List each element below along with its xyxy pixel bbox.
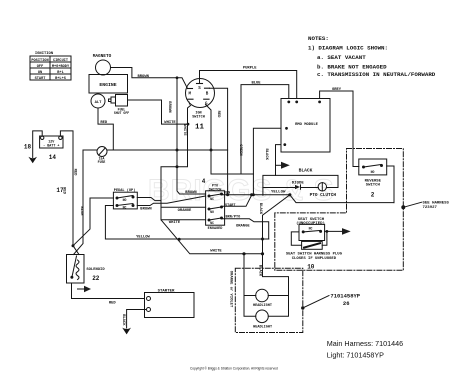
svg-text:BLUE: BLUE	[79, 206, 83, 216]
svg-text:M+G+BODY: M+G+BODY	[52, 65, 70, 69]
svg-text:BRIGGS & S: BRIGGS & S	[148, 174, 335, 207]
wire: PURPLE, ign switch S to RMO module	[200, 67, 297, 99]
svg-text:B+L: B+L	[57, 71, 63, 75]
wire: WHITE pedal NO-right to headlight feed	[137, 198, 262, 254]
wire: BROWN vertical drop to PTO switch NC1 left	[167, 77, 206, 195]
svg-text:WHITE: WHITE	[182, 124, 186, 136]
svg-text:NO: NO	[210, 210, 214, 214]
svg-text:ALT: ALT	[95, 101, 103, 105]
svg-text:S: S	[198, 87, 201, 91]
svg-text:1) DIAGRAM LOGIC SHOWN:: 1) DIAGRAM LOGIC SHOWN:	[308, 45, 388, 52]
junction: solenoid feed node	[72, 245, 74, 247]
wire: seat switch right output with connector arrow	[325, 228, 351, 235]
svg-text:c. TRANSMISSION IN NEUTRAL/FOR: c. TRANSMISSION IN NEUTRAL/FORWARD	[317, 71, 436, 78]
wire: BLACK pto clutch loop	[263, 168, 338, 196]
svg-text:22: 22	[92, 275, 100, 282]
svg-text:SWITCH: SWITCH	[366, 184, 381, 188]
svg-text:HEADLIGHT: HEADLIGHT	[253, 326, 272, 330]
svg-text:2: 2	[371, 192, 375, 199]
notes text	[308, 35, 436, 78]
harness part numbers	[327, 339, 403, 360]
engine	[89, 75, 128, 94]
svg-text:NC: NC	[123, 205, 127, 209]
svg-text:BLACK: BLACK	[264, 148, 268, 160]
PTO switch 4	[202, 178, 241, 231]
wire: ORANGE or VIOLET headlight left bus	[229, 254, 256, 316]
wire: headlight 1 left lead	[244, 295, 256, 297]
wire: magneto to ign switch terminal M (BROWN)	[111, 68, 188, 89]
junction: black bus on yellow line	[262, 238, 264, 240]
svg-text:HEADLIGHT: HEADLIGHT	[253, 304, 272, 308]
svg-text:11: 11	[195, 123, 205, 131]
wire: from ign switch G down and right to green vertical	[206, 105, 254, 175]
svg-text:SOLENOID: SOLENOID	[86, 268, 105, 272]
svg-text:BLACK: BLACK	[258, 203, 262, 215]
svg-text:NC: NC	[210, 221, 214, 225]
solenoid 22	[67, 255, 106, 284]
svg-text:OFF: OFF	[37, 65, 43, 69]
svg-text:RED: RED	[100, 121, 108, 125]
svg-text:RED: RED	[62, 187, 66, 195]
wire: RED alternator to fuse line	[98, 108, 113, 150]
junction: clutch feed node	[289, 194, 291, 196]
wire: PTO start output	[222, 195, 252, 206]
junction: white crosses yellow	[178, 238, 180, 240]
svg-text:PURPLE: PURPLE	[243, 67, 257, 71]
svg-text:10: 10	[307, 264, 315, 271]
svg-text:CIRCUIT: CIRCUIT	[53, 59, 69, 63]
junction: headlight right bus tap	[261, 253, 263, 255]
wire: BLUE pedal NO-left to solenoid node	[73, 198, 113, 246]
wire: ORANGE PTO NO-left	[161, 207, 206, 213]
svg-text:4: 4	[202, 178, 206, 185]
wire: BLACK starter to ground	[121, 310, 147, 329]
svg-text:Main Harness: 7101446: Main Harness: 7101446	[327, 339, 403, 348]
wire: RED fuse to solenoid	[73, 150, 97, 255]
svg-text:SWITCH: SWITCH	[192, 116, 205, 120]
svg-text:b. BRAKE NOT ENGAGED: b. BRAKE NOT ENGAGED	[317, 64, 387, 71]
wire: RED solenoid to starter	[72, 283, 145, 306]
svg-text:NOTES:: NOTES:	[308, 35, 329, 42]
wire: reverse switch return	[387, 166, 394, 203]
svg-text:GREY: GREY	[332, 88, 342, 92]
svg-text:SHUT OFF: SHUT OFF	[114, 111, 129, 115]
svg-text:PTO CLUTCH: PTO CLUTCH	[310, 193, 337, 198]
svg-text:YELLOW: YELLOW	[136, 236, 150, 240]
headlight 1	[253, 289, 272, 308]
svg-text:Light: 7101458YP: Light: 7101458YP	[327, 351, 384, 360]
wire: YELLOW pedal NC-left bus	[105, 206, 268, 240]
ignition switch logic table	[30, 52, 71, 81]
ign switch 11	[186, 79, 215, 132]
diode C4	[292, 181, 319, 189]
light harness callout 7101458YP 26	[302, 293, 361, 310]
svg-text:NC: NC	[210, 197, 214, 201]
wire: WHITE from ign switch L down to fuse line	[182, 106, 191, 151]
svg-text:BROWN: BROWN	[167, 101, 171, 113]
pedal switch (up)	[113, 188, 137, 209]
ground: starter	[122, 328, 131, 335]
svg-text:B: B	[206, 93, 209, 97]
svg-text:BLACK: BLACK	[299, 168, 313, 174]
wire: headlight 1 right lead	[268, 295, 288, 297]
svg-text:IGNITION: IGNITION	[35, 52, 54, 56]
wire: BLACK headlight right bus	[258, 239, 289, 316]
svg-text:ORANGE or VIOLET: ORANGE or VIOLET	[229, 271, 234, 308]
wire: BLACK node down to yellow bus	[258, 195, 290, 239]
solenoid connector arrow	[78, 286, 92, 292]
svg-text:26: 26	[343, 300, 350, 307]
svg-text:ENGAGED: ENGAGED	[208, 227, 223, 231]
junction: headlight left bus tap	[243, 253, 245, 255]
RMO module	[281, 99, 330, 153]
svg-text:7101458YP: 7101458YP	[330, 293, 360, 300]
wire: YELLOW run line from PTO to clutch junction	[222, 191, 290, 195]
wire: PTO NC2-left	[161, 219, 206, 221]
reverse switch 2	[359, 159, 387, 199]
svg-text:ENGINE: ENGINE	[99, 82, 116, 88]
svg-text:B+L+S: B+L+S	[55, 77, 67, 81]
svg-text:MAGNETO: MAGNETO	[93, 54, 112, 59]
starter	[145, 289, 195, 317]
fuel shut off solenoid	[109, 95, 130, 116]
svg-text:Copyright © Briggs & Stratton: Copyright © Briggs & Stratton Corporatio…	[190, 367, 278, 371]
svg-text:BROWN: BROWN	[185, 191, 197, 195]
wire: GREY RMO to reverse switch	[320, 88, 359, 167]
svg-text:RED: RED	[109, 302, 117, 306]
svg-text:POSITION: POSITION	[31, 59, 48, 63]
svg-text:BROWN: BROWN	[138, 75, 150, 79]
svg-text:18: 18	[24, 144, 32, 151]
ground: battery	[28, 157, 37, 163]
svg-text:BLACK: BLACK	[258, 265, 262, 277]
wire: L-feed jog from fuse line down to pedal white node	[161, 150, 188, 201]
svg-text:START: START	[35, 77, 47, 81]
wire: node to reverse switch return line	[290, 195, 394, 203]
svg-text:CLOSES IF UNPLUGGED: CLOSES IF UNPLUGGED	[292, 257, 337, 261]
alternator ALT	[91, 94, 105, 108]
svg-text:RMO MODULE: RMO MODULE	[295, 123, 319, 127]
svg-text:STARTER: STARTER	[158, 289, 175, 293]
svg-text:WHITE: WHITE	[169, 221, 181, 225]
svg-text:NC: NC	[309, 227, 313, 231]
junction: G wire on fuse line	[210, 149, 212, 151]
wire: BLUE/GREEN vertical to RMO module	[238, 81, 289, 174]
svg-text:FUSE: FUSE	[98, 160, 106, 164]
battery 14	[40, 136, 63, 161]
svg-text:DIODE: DIODE	[292, 181, 305, 185]
junction: RMO drop on run line	[252, 194, 254, 196]
wire: fuse output to RED vertical	[107, 149, 228, 151]
wire: seat switch left loop to plug	[291, 232, 301, 245]
svg-text:723927: 723927	[423, 206, 438, 210]
svg-text:NO: NO	[123, 198, 127, 202]
svg-text:ORANGE: ORANGE	[178, 209, 192, 213]
seat switch (unoccupied)	[296, 218, 325, 241]
wire: battery negative to ground 18	[24, 131, 42, 158]
wire: BROWN pedal NC-right to PTO switch	[137, 196, 205, 212]
wire: RMO left pin drop to run line	[253, 128, 281, 195]
magneto	[93, 54, 112, 75]
wire: BLACK RMO lower pin to clutch loop with connector arrow	[264, 145, 290, 176]
svg-text:14: 14	[49, 154, 57, 161]
svg-text:RED: RED	[216, 111, 220, 119]
junction: RED on run line	[227, 194, 229, 196]
junction: start wire on run line	[251, 194, 253, 196]
pto clutch	[310, 183, 337, 198]
light harness dash-dot boundary	[235, 268, 302, 332]
main harness dash-dot boundary	[275, 149, 404, 271]
svg-text:BLUE: BLUE	[251, 81, 261, 85]
svg-text:YELLOW: YELLOW	[271, 191, 286, 195]
svg-text:M: M	[188, 93, 191, 97]
svg-text:a. SEAT VACANT: a. SEAT VACANT	[317, 54, 366, 61]
seat switch harness plug 10	[286, 241, 343, 270]
svg-text:WHITE: WHITE	[210, 250, 222, 254]
wire: RED from ign switch B down to PTO run line	[210, 88, 228, 195]
wire: fuel shut off WHITE to L drop	[128, 100, 189, 125]
junction: brown/white tie at (177,166.7)	[176, 166, 178, 168]
wire: seat switch right loop to plug	[322, 231, 327, 245]
svg-text:GREEN: GREEN	[238, 144, 242, 156]
see harness callout 723927	[402, 201, 450, 210]
svg-text:- BATT +: - BATT +	[43, 145, 59, 149]
svg-text:(UNOCCUPIED): (UNOCCUPIED)	[296, 221, 325, 226]
svg-text:SEAT SWITCH HARNESS PLUG: SEAT SWITCH HARNESS PLUG	[286, 252, 343, 256]
svg-text:BROWN: BROWN	[140, 208, 152, 212]
junction: seat right loop	[326, 231, 328, 233]
svg-text:ORANGE: ORANGE	[236, 225, 250, 229]
svg-text:BLACK: BLACK	[121, 314, 125, 326]
svg-text:ON: ON	[38, 71, 42, 75]
wire: ORANGE PTO BRN/PTO output	[222, 219, 269, 239]
svg-text:SEE HARNESS: SEE HARNESS	[423, 201, 450, 205]
junction: brown wire on fuse line	[176, 149, 178, 151]
svg-text:NO: NO	[371, 170, 375, 174]
wire: battery positive RED 17 to solenoid	[56, 131, 79, 255]
svg-text:WHITE: WHITE	[164, 121, 176, 125]
headlight 2	[253, 310, 272, 330]
fuse 15A	[97, 147, 107, 165]
